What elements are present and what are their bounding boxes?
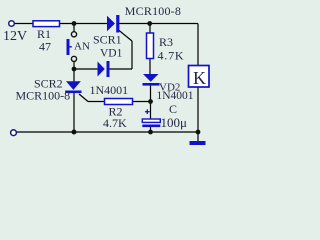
svg-text:SCR1: SCR1 (93, 33, 122, 47)
svg-text:1N4001: 1N4001 (90, 83, 129, 97)
svg-text:VD1: VD1 (100, 48, 123, 60)
svg-text:1N4001: 1N4001 (157, 90, 194, 102)
svg-text:MCR100-8: MCR100-8 (125, 4, 181, 18)
svg-text:R3: R3 (159, 35, 173, 49)
svg-text:K: K (193, 68, 206, 88)
svg-text:AN: AN (74, 41, 90, 53)
svg-text:47: 47 (39, 40, 51, 54)
svg-text:4.7K: 4.7K (103, 116, 127, 130)
svg-text:MCR100-8: MCR100-8 (16, 89, 71, 103)
svg-text:100μ: 100μ (161, 115, 188, 130)
svg-text:C: C (169, 102, 177, 116)
svg-text:4.7K: 4.7K (158, 49, 185, 63)
svg-text:12V: 12V (3, 29, 27, 44)
